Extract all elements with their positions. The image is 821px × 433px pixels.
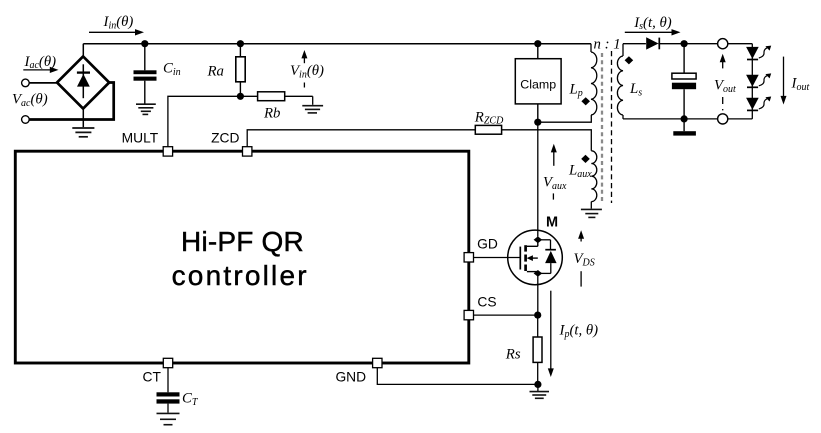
resistor Rs — [533, 315, 542, 384]
wire node to drain — [537, 122, 539, 236]
bridge rectifier — [57, 56, 109, 108]
label Lp — [569, 82, 583, 99]
label Vin — [290, 63, 324, 80]
pin CS — [464, 310, 473, 319]
arrow VDS — [578, 230, 584, 241]
ground Rs — [530, 384, 550, 398]
node polarity dot Laux — [581, 155, 590, 163]
label CS — [477, 295, 496, 310]
arrow Is — [625, 29, 681, 35]
node junction Ra-Rb-MULT — [237, 93, 244, 100]
node junction Rs-GND — [534, 381, 541, 388]
terminal AC top — [22, 79, 30, 87]
label Iac — [24, 54, 57, 71]
node junction cap-bottom rail — [681, 115, 688, 122]
wire Vin dashed stub — [303, 83, 305, 92]
transistor M MOSFET — [508, 230, 563, 285]
label Hi-PF QR controller — [172, 226, 309, 291]
label MULT — [122, 130, 159, 145]
label Iin — [103, 14, 134, 31]
diode output rectifier — [646, 37, 659, 49]
wire bridge top to rail — [82, 44, 84, 57]
terminal output plus — [718, 39, 728, 49]
svg-text:CS: CS — [477, 295, 496, 310]
svg-text:Vac(θ): Vac(θ) — [12, 92, 48, 109]
label Vac — [12, 92, 48, 109]
wire secondary top rail — [623, 43, 752, 45]
label CT cap — [182, 391, 199, 408]
wire CS to source — [474, 314, 538, 316]
label ZCD — [211, 130, 239, 145]
ground CT — [157, 413, 180, 424]
wire clamp to node — [537, 104, 539, 122]
label M — [546, 214, 558, 230]
label Rs — [505, 347, 521, 363]
arrow Iin — [89, 29, 144, 35]
label GD — [477, 237, 498, 252]
label Cin — [163, 61, 181, 78]
node junction diode-cap — [681, 40, 688, 47]
node polarity dot Ls — [625, 56, 634, 64]
wire bridge bottom to ground — [82, 109, 84, 128]
terminal AC bottom — [22, 116, 30, 124]
label Ip — [559, 323, 599, 340]
pin CT — [163, 358, 172, 367]
wire LED string — [751, 44, 753, 119]
label Vout — [714, 78, 736, 95]
svg-text:Is(t, θ): Is(t, θ) — [633, 15, 672, 32]
svg-text:GND: GND — [335, 370, 366, 385]
wire Vaux dashed stub — [552, 193, 554, 199]
arrow Vaux — [551, 144, 557, 166]
svg-text:n : 1: n : 1 — [594, 37, 621, 53]
terminal output minus — [718, 114, 728, 124]
svg-text:Vin(θ): Vin(θ) — [290, 63, 324, 80]
controller box — [15, 151, 469, 363]
label CT — [142, 370, 161, 385]
wire AC bottom to bridge right vertex — [29, 83, 114, 120]
label RZCD — [474, 109, 504, 126]
svg-text:MULT: MULT — [122, 130, 159, 145]
capacitor Cout — [672, 44, 696, 119]
svg-text:Rb: Rb — [263, 106, 280, 122]
LED D2 — [746, 73, 771, 87]
wire rail to clamp — [537, 44, 539, 59]
arrow Vout — [720, 54, 726, 69]
svg-text:Ra: Ra — [207, 64, 224, 80]
label VDS — [574, 251, 595, 268]
inductor Laux auxiliary winding — [591, 151, 597, 209]
pin ZCD — [243, 147, 252, 156]
wire GND to Rs bottom — [377, 368, 538, 385]
svg-text:ZCD: ZCD — [211, 130, 239, 145]
node junction clamp-Lp-drain — [534, 119, 541, 126]
wire MOSFET source down — [537, 273, 539, 315]
label GND — [335, 370, 366, 385]
resistor Rb — [240, 92, 312, 101]
arrow Vin — [301, 50, 307, 63]
resistor Ra — [236, 44, 245, 97]
label Is — [633, 15, 672, 32]
label Rb — [263, 106, 280, 122]
node junction rail-Cin — [141, 40, 148, 47]
pin GD — [464, 253, 473, 262]
ground Cin — [136, 104, 156, 114]
label Vaux — [543, 175, 567, 192]
node polarity dot Lp — [581, 97, 590, 105]
label Ls — [629, 81, 642, 98]
node junction CS-source — [534, 312, 541, 319]
clamp block — [515, 59, 561, 104]
wire VDS dashed stub — [580, 271, 582, 286]
wire GD to gate — [474, 257, 521, 259]
wire Vout dashed stub — [722, 97, 724, 110]
wire CT to cap — [167, 368, 169, 393]
resistor RZCD — [475, 125, 501, 134]
svg-text:CT: CT — [142, 370, 161, 385]
label Ra — [207, 64, 224, 80]
label Iout — [791, 76, 810, 93]
wire MULT riser — [168, 96, 241, 147]
arrow Iac — [23, 67, 58, 73]
wire Rb to ground — [312, 96, 314, 105]
transformer core — [602, 51, 612, 203]
capacitor CT — [157, 392, 180, 412]
wire RZCD to Laux — [502, 130, 592, 151]
ground bridge — [72, 128, 94, 137]
svg-text:Rs: Rs — [505, 347, 521, 363]
wire secondary bottom rail — [623, 118, 752, 120]
svg-text:controller: controller — [172, 260, 309, 291]
arrow Iout — [781, 57, 787, 105]
ground Rb — [302, 106, 323, 113]
wire top primary rail — [83, 43, 591, 45]
svg-text:M: M — [546, 214, 558, 230]
node junction rail-Clamp — [534, 40, 541, 47]
wire AC top to bridge — [29, 82, 57, 84]
label n:1 — [594, 37, 621, 53]
arrow Ip — [548, 291, 554, 377]
ground Laux — [581, 209, 602, 217]
svg-text:Hi-PF QR: Hi-PF QR — [181, 226, 304, 257]
inductor Ls secondary winding — [617, 44, 623, 119]
LED D3 — [746, 97, 771, 111]
svg-text:Clamp: Clamp — [520, 77, 556, 91]
svg-text:Iin(θ): Iin(θ) — [103, 14, 134, 31]
ground output bar — [673, 119, 696, 136]
inductor Lp primary winding — [591, 44, 597, 115]
svg-text:GD: GD — [477, 237, 498, 252]
label Laux — [568, 163, 592, 180]
wire ZCD riser — [247, 130, 475, 147]
node junction rail-Ra — [237, 40, 244, 47]
pin GND — [373, 358, 382, 367]
wire node to Lp bottom — [538, 115, 592, 122]
capacitor Cin — [134, 44, 157, 104]
LED D1 — [746, 46, 771, 60]
pin MULT — [163, 147, 172, 156]
